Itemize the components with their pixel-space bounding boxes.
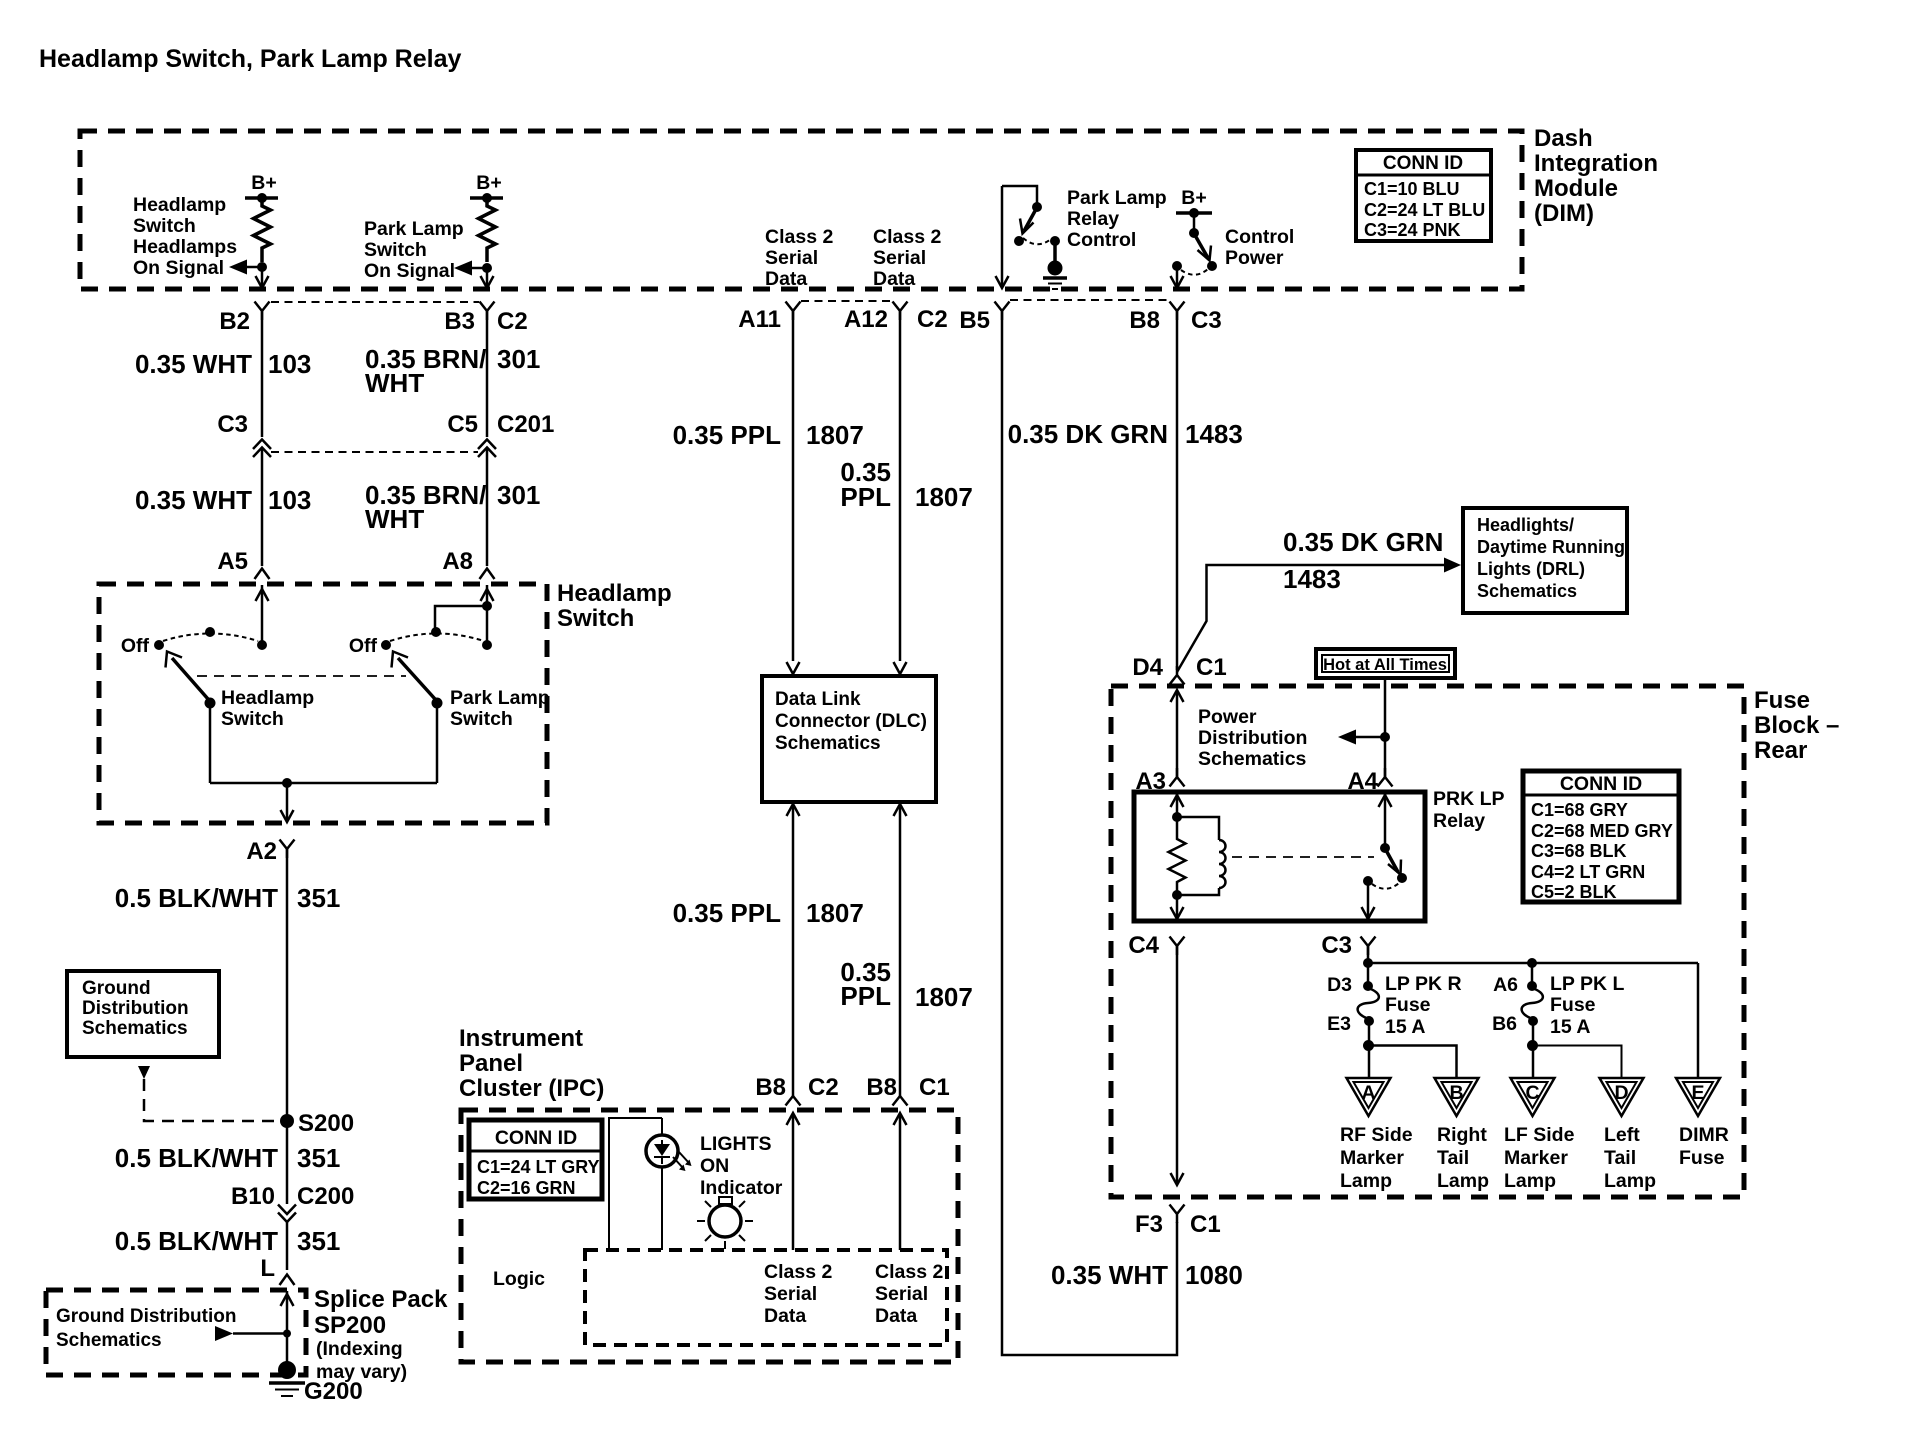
switch: Park Lamp Relay Control (in DIM) [996, 186, 1167, 289]
svg-text:351: 351 [297, 883, 340, 913]
svg-text:15 A: 15 A [1550, 1016, 1590, 1038]
svg-text:LF Side: LF Side [1504, 1124, 1575, 1146]
svg-text:Module: Module [1534, 175, 1618, 202]
wire DIMR fuse [1697, 963, 1700, 1078]
svg-text:Lamp: Lamp [1437, 1170, 1489, 1192]
svg-text:Schematics: Schematics [56, 1330, 162, 1351]
position arc [390, 634, 484, 642]
wire: B2 exit with arrow [261, 267, 264, 287]
svg-text:Serial: Serial [873, 247, 926, 269]
svg-text:Lamp: Lamp [1504, 1170, 1556, 1192]
svg-text:Park Lamp: Park Lamp [450, 687, 550, 709]
svg-text:C2: C2 [497, 308, 528, 335]
svg-text:A2: A2 [246, 838, 277, 865]
svg-text:1807: 1807 [806, 420, 864, 450]
svg-text:Hot at All Times: Hot at All Times [1323, 656, 1447, 674]
node: park lamp on signal junction [482, 263, 492, 273]
wire 351 (A2 to S200) [286, 849, 289, 1204]
svg-text:Switch: Switch [133, 215, 196, 237]
wire 301 (B3 to C5) [486, 311, 489, 437]
svg-text:Data: Data [765, 268, 807, 290]
connector A11 [786, 302, 801, 321]
svg-text:Headlamp Switch, Park Lamp Rel: Headlamp Switch, Park Lamp Relay [39, 45, 461, 73]
svg-text:0.35 DK GRN: 0.35 DK GRN [1008, 419, 1168, 449]
svg-text:S200: S200 [298, 1110, 354, 1137]
mechanical link dash [197, 675, 406, 677]
connector link dash C3-C5 [271, 451, 478, 453]
svg-text:B8: B8 [866, 1074, 897, 1101]
svg-text:C2=16 GRN: C2=16 GRN [477, 1178, 576, 1198]
switch arm [172, 658, 208, 699]
connector into splice pack [280, 1275, 295, 1286]
svg-text:B+: B+ [251, 172, 276, 194]
svg-text:C1=10 BLU: C1=10 BLU [1364, 179, 1460, 199]
svg-text:351: 351 [297, 1226, 340, 1256]
svg-text:C5=2 BLK: C5=2 BLK [1531, 882, 1617, 902]
svg-text:C3: C3 [217, 411, 248, 438]
svg-text:Data: Data [875, 1305, 917, 1327]
svg-text:(DIM): (DIM) [1534, 200, 1594, 227]
switch arm [1196, 237, 1208, 258]
reference arrow (power distribution) [1380, 732, 1390, 742]
svg-text:Relay: Relay [1433, 810, 1485, 832]
wire: Hot at All Times to A4 [1384, 678, 1387, 777]
svg-text:WHT: WHT [365, 368, 424, 398]
wire C4 down to F3 [1176, 946, 1179, 1185]
switch: Control Power (in DIM) [1171, 187, 1295, 288]
svg-text:PPL: PPL [840, 482, 891, 512]
svg-text:Schematics: Schematics [1198, 748, 1307, 770]
svg-text:F3: F3 [1135, 1211, 1163, 1238]
switch arm [1024, 211, 1035, 231]
wire D4 into fuse block [1176, 690, 1179, 777]
svg-text:Switch: Switch [364, 239, 427, 261]
svg-text:Switch: Switch [221, 708, 284, 730]
out connector B: Right Tail Lamp [1435, 1078, 1490, 1192]
svg-text:A12: A12 [844, 306, 888, 333]
svg-text:Headlamp: Headlamp [557, 580, 672, 607]
svg-text:Fuse: Fuse [1385, 994, 1431, 1016]
svg-text:Switch: Switch [557, 605, 634, 632]
svg-text:Lights (DRL): Lights (DRL) [1477, 559, 1585, 579]
box: Headlights/Daytime Running Lights (DRL) Schematics [1463, 508, 1627, 613]
svg-text:B10: B10 [231, 1183, 275, 1210]
svg-text:Daytime Running: Daytime Running [1477, 537, 1625, 557]
svg-text:C1: C1 [1196, 654, 1227, 681]
svg-text:Relay: Relay [1067, 208, 1119, 230]
svg-text:Schematics: Schematics [82, 1018, 188, 1039]
svg-text:Control: Control [1067, 229, 1136, 251]
connector link dash B2-B3 [271, 301, 479, 303]
svg-text:LIGHTS: LIGHTS [700, 1133, 772, 1155]
LED indicator (lights on) [609, 1118, 692, 1250]
svg-text:ON: ON [700, 1155, 729, 1177]
svg-text:Headlamp: Headlamp [133, 194, 226, 216]
svg-text:Ground: Ground [82, 978, 151, 999]
svg-text:Tail: Tail [1604, 1147, 1636, 1169]
svg-text:C2: C2 [917, 306, 948, 333]
node S200 [280, 1114, 294, 1128]
svg-text:C2: C2 [808, 1074, 839, 1101]
wire into IPC logic (C2) [792, 1113, 795, 1250]
svg-text:Control: Control [1225, 226, 1294, 248]
relay box: PRK LP Relay [1134, 792, 1425, 921]
svg-text:Fuse: Fuse [1679, 1147, 1725, 1169]
svg-text:0.35 DK GRN: 0.35 DK GRN [1283, 527, 1443, 557]
svg-text:Distribution: Distribution [1198, 727, 1307, 749]
svg-text:C2=24 LT BLU: C2=24 LT BLU [1364, 200, 1485, 220]
relay coil branch A3 [1169, 793, 1226, 919]
svg-text:B8: B8 [1129, 307, 1160, 334]
out connector A: RF Side Marker Lamp [1340, 1078, 1413, 1192]
svg-text:Schematics: Schematics [1477, 581, 1577, 601]
relay link dash [1232, 856, 1374, 858]
svg-text:Dash: Dash [1534, 125, 1593, 152]
svg-text:Logic: Logic [493, 1268, 545, 1290]
svg-text:Tail: Tail [1437, 1147, 1469, 1169]
svg-text:B+: B+ [476, 172, 501, 194]
svg-text:L: L [260, 1255, 275, 1282]
wire into IPC logic (C1) [899, 1113, 902, 1250]
svg-text:1807: 1807 [915, 982, 973, 1012]
svg-text:Headlights/: Headlights/ [1477, 515, 1574, 535]
svg-text:0.35 WHT: 0.35 WHT [135, 485, 252, 515]
svg-text:B6: B6 [1492, 1013, 1517, 1035]
svg-text:Connector (DLC): Connector (DLC) [775, 711, 927, 732]
svg-text:C2=68 MED GRY: C2=68 MED GRY [1531, 821, 1673, 841]
wire 1807 (DLC to IPC B8/C2) [787, 804, 800, 816]
bulb symbol [697, 1197, 753, 1249]
svg-text:0.5 BLK/WHT: 0.5 BLK/WHT [115, 1143, 278, 1173]
svg-text:B8: B8 [755, 1074, 786, 1101]
svg-text:103: 103 [268, 485, 311, 515]
wire 1807 (A11 to DLC) [792, 311, 795, 661]
svg-text:351: 351 [297, 1143, 340, 1173]
box: Data Link Connector (DLC) Schematics [762, 676, 936, 802]
resistor (park lamp switch on signal pullup) [479, 198, 496, 262]
svg-text:C4: C4 [1128, 932, 1159, 959]
svg-text:C3=24 PNK: C3=24 PNK [1364, 220, 1461, 240]
out connector D: Left Tail Lamp [1600, 1078, 1657, 1192]
svg-text:C200: C200 [297, 1183, 354, 1210]
connector A12 / C2 [893, 302, 908, 321]
svg-text:E3: E3 [1327, 1013, 1351, 1035]
out connector C: LF Side Marker Lamp [1504, 1078, 1575, 1192]
svg-text:PRK LP: PRK LP [1433, 788, 1505, 810]
svg-text:0.5 BLK/WHT: 0.5 BLK/WHT [115, 1226, 278, 1256]
svg-text:E: E [1691, 1082, 1704, 1104]
svg-text:Park Lamp: Park Lamp [1067, 187, 1167, 209]
svg-text:LP PK L: LP PK L [1550, 973, 1624, 995]
fuse LP PK L 15A [1492, 963, 1624, 1038]
svg-text:Off: Off [349, 635, 378, 657]
position arc [163, 634, 258, 642]
svg-text:A6: A6 [1493, 974, 1518, 996]
wire 1483 (B5 loop to F3) [1002, 311, 1177, 1355]
dashed reference arrow to S200 [138, 1066, 150, 1079]
svg-text:Marker: Marker [1504, 1147, 1568, 1169]
fuse LP PK R 15A [1327, 973, 1462, 1038]
svg-text:Block –: Block – [1754, 712, 1839, 739]
svg-text:1483: 1483 [1283, 564, 1341, 594]
box label: Hot at All Times [1316, 649, 1455, 678]
svg-text:Park Lamp: Park Lamp [364, 218, 464, 240]
DRL branch wire [1177, 565, 1446, 672]
svg-text:301: 301 [497, 480, 540, 510]
wire 1807 (DLC to IPC B8/C1) [894, 804, 907, 816]
connector link dash B5-B8 [1010, 299, 1169, 301]
svg-text:Class 2: Class 2 [765, 226, 833, 248]
svg-text:C1=24 LT GRY: C1=24 LT GRY [477, 1157, 600, 1177]
svg-text:Schematics: Schematics [775, 733, 881, 754]
wire 103 (B2 to C3) [261, 311, 264, 437]
svg-text:0.35 PPL: 0.35 PPL [673, 898, 782, 928]
wire C3 to fuses bus [1367, 946, 1370, 985]
node G200 ground [278, 1361, 296, 1379]
svg-text:Left: Left [1604, 1124, 1640, 1146]
svg-text:may vary): may vary) [316, 1361, 407, 1383]
svg-text:Cluster (IPC): Cluster (IPC) [459, 1075, 604, 1102]
svg-text:C5: C5 [447, 411, 478, 438]
relay switch side A4 [1362, 793, 1408, 919]
svg-text:C1: C1 [919, 1074, 950, 1101]
module box: Instrument Panel Cluster [461, 1110, 958, 1362]
CONN ID table (DIM) [1356, 150, 1491, 241]
connector B8 / C3 [1170, 302, 1185, 321]
wire fuse L to lamps [1532, 1021, 1535, 1078]
svg-text:C201: C201 [497, 411, 554, 438]
svg-text:Marker: Marker [1340, 1147, 1404, 1169]
svg-text:RF Side: RF Side [1340, 1124, 1413, 1146]
svg-text:A8: A8 [442, 548, 473, 575]
svg-text:Integration: Integration [1534, 150, 1658, 177]
wire fuse R to lamps [1368, 1021, 1371, 1078]
svg-text:Class 2: Class 2 [875, 1261, 943, 1283]
svg-text:1807: 1807 [915, 482, 973, 512]
svg-text:WHT: WHT [365, 504, 424, 534]
svg-text:D3: D3 [1327, 974, 1352, 996]
module box: Splice Pack SP200 [46, 1290, 306, 1375]
svg-text:Class 2: Class 2 [764, 1261, 832, 1283]
wire: switch common to A2 [210, 782, 437, 785]
svg-text:(Indexing: (Indexing [316, 1338, 403, 1360]
svg-text:A11: A11 [738, 306, 781, 333]
svg-text:0.35 PPL: 0.35 PPL [673, 420, 782, 450]
connector B5 [995, 302, 1010, 321]
switch: Headlamp Switch (left half) [121, 585, 314, 783]
dashed logic box [585, 1250, 947, 1345]
svg-text:Distribution: Distribution [82, 998, 189, 1019]
svg-text:0.35 WHT: 0.35 WHT [1051, 1260, 1168, 1290]
svg-text:On Signal: On Signal [364, 260, 455, 282]
svg-text:Power: Power [1225, 247, 1284, 269]
switch arm [398, 658, 435, 699]
module box: Dash Integration Module (DIM) [80, 131, 1522, 289]
svg-text:A: A [1361, 1082, 1375, 1104]
svg-text:15 A: 15 A [1385, 1016, 1425, 1038]
svg-text:Headlamp: Headlamp [221, 687, 314, 709]
svg-text:1080: 1080 [1185, 1260, 1243, 1290]
svg-text:Instrument: Instrument [459, 1025, 583, 1052]
svg-text:A5: A5 [217, 548, 248, 575]
connector B2 [255, 302, 270, 321]
connector link dash A11-A12 [801, 300, 892, 302]
svg-text:B5: B5 [959, 307, 990, 334]
svg-text:Panel: Panel [459, 1050, 523, 1077]
svg-text:C3: C3 [1321, 932, 1352, 959]
svg-text:103: 103 [268, 349, 311, 379]
module box: Fuse Block - Rear [1111, 686, 1744, 1197]
emitted light arrows [673, 1157, 683, 1168]
svg-text:1807: 1807 [806, 898, 864, 928]
wire from A8 into box [486, 585, 489, 641]
svg-text:0.35 WHT: 0.35 WHT [135, 349, 252, 379]
svg-text:Serial: Serial [764, 1283, 817, 1305]
svg-text:LP PK R: LP PK R [1385, 973, 1462, 995]
svg-text:D: D [1614, 1082, 1628, 1104]
svg-text:On Signal: On Signal [133, 257, 224, 279]
svg-text:Data: Data [764, 1305, 806, 1327]
svg-text:C1=68 GRY: C1=68 GRY [1531, 800, 1628, 820]
svg-text:B2: B2 [219, 308, 250, 335]
svg-text:C1: C1 [1190, 1211, 1221, 1238]
reference arrow (ground distribution) [215, 1326, 233, 1341]
svg-text:DIMR: DIMR [1679, 1124, 1729, 1146]
svg-text:Serial: Serial [765, 247, 818, 269]
CONN ID table (fuse block) [1523, 771, 1679, 902]
wire: to headlamps-on-signal arrow [246, 266, 262, 269]
node: headlamps on signal junction [257, 262, 267, 272]
switch: Park Lamp Switch (right half) [349, 585, 550, 783]
svg-text:0.5 BLK/WHT: 0.5 BLK/WHT [115, 883, 278, 913]
out connector E: DIMR Fuse [1676, 1078, 1729, 1169]
svg-text:C3=68 BLK: C3=68 BLK [1531, 841, 1627, 861]
wire: B3 exit with arrow [486, 268, 489, 287]
svg-text:B+: B+ [1181, 187, 1206, 209]
svg-text:PPL: PPL [840, 981, 891, 1011]
svg-text:Splice Pack: Splice Pack [314, 1286, 448, 1313]
wire 1483 (B8 down to D4) [1176, 311, 1179, 670]
svg-text:1483: 1483 [1185, 419, 1243, 449]
wire: to park-lamp-on-signal arrow [471, 267, 487, 270]
svg-text:Ground Distribution: Ground Distribution [56, 1306, 236, 1327]
ground (relay control) [1053, 241, 1057, 262]
svg-text:Fuse: Fuse [1754, 687, 1810, 714]
svg-text:B: B [1449, 1082, 1463, 1104]
resistor (headlamp switch on signal pullup) [254, 198, 271, 262]
svg-text:Power: Power [1198, 706, 1257, 728]
svg-text:Class 2: Class 2 [873, 226, 941, 248]
svg-text:Rear: Rear [1754, 737, 1807, 764]
svg-text:Switch: Switch [450, 708, 513, 730]
wire: C3 exit with arrow [1176, 266, 1179, 287]
wire from A5 into box [261, 585, 264, 641]
svg-text:SP200: SP200 [314, 1312, 386, 1339]
connector B3 / C2 [480, 302, 495, 321]
relay coil [1177, 817, 1219, 840]
svg-text:C4=2 LT GRN: C4=2 LT GRN [1531, 862, 1645, 882]
svg-text:D4: D4 [1132, 654, 1163, 681]
wire: B5 exit with arrow [1001, 186, 1004, 287]
svg-text:Lamp: Lamp [1604, 1170, 1656, 1192]
svg-text:CONN ID: CONN ID [1560, 773, 1642, 795]
module box: Headlamp Switch [99, 584, 547, 823]
svg-text:CONN ID: CONN ID [495, 1127, 577, 1149]
svg-text:B3: B3 [444, 308, 475, 335]
svg-text:Headlamps: Headlamps [133, 236, 237, 258]
svg-text:Right: Right [1437, 1124, 1487, 1146]
svg-text:Fuse: Fuse [1550, 994, 1596, 1016]
svg-text:Data Link: Data Link [775, 689, 861, 710]
svg-text:CONN ID: CONN ID [1383, 153, 1463, 174]
svg-text:301: 301 [497, 344, 540, 374]
box: Ground Distribution Schematics [67, 971, 219, 1057]
svg-text:Data: Data [873, 268, 915, 290]
wire into splice pack with arrow [286, 1291, 289, 1368]
svg-text:Lamp: Lamp [1340, 1170, 1392, 1192]
wire 1807 (A12 to DLC) [899, 311, 902, 661]
svg-text:C3: C3 [1191, 307, 1222, 334]
svg-text:C: C [1525, 1082, 1539, 1104]
relay resistor [1169, 817, 1186, 895]
svg-text:Serial: Serial [875, 1283, 928, 1305]
svg-text:Indicator: Indicator [700, 1177, 783, 1199]
CONN ID table (IPC) [469, 1120, 602, 1199]
svg-text:Off: Off [121, 635, 150, 657]
